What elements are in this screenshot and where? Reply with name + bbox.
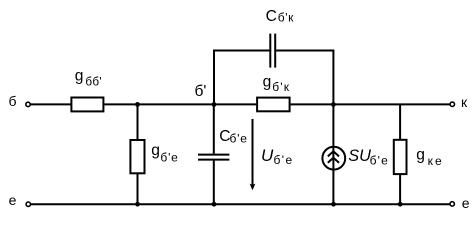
current source SU_б'е	[322, 147, 345, 170]
terminal е left	[26, 202, 30, 206]
wire б' to g_б'к	[214, 103, 256, 105]
arrow U_б'е	[252, 119, 254, 185]
wire g_б'к to node	[291, 103, 334, 105]
svg-text:ке: ке	[428, 154, 444, 168]
svg-text:g: g	[151, 142, 160, 159]
svg-text:g: g	[263, 74, 272, 91]
wire junction to б'	[138, 103, 215, 105]
wire node to terminal к	[333, 103, 450, 105]
wire б' up to C_б'к	[214, 51, 269, 105]
svg-text:е: е	[9, 192, 17, 208]
svg-text:SU: SU	[348, 147, 371, 165]
svg-text:б'к: б'к	[272, 80, 290, 94]
node junction current source top	[331, 102, 336, 107]
label g_бб'	[75, 67, 102, 88]
svg-text:g: g	[416, 147, 425, 164]
node junction C_б'е bottom	[212, 202, 217, 207]
capacitor C_б'е plates	[198, 154, 229, 156]
svg-text:бб': бб'	[85, 75, 102, 88]
svg-text:б'е: б'е	[370, 153, 389, 167]
svg-text:U: U	[261, 146, 274, 165]
wire C_б'к to node	[276, 51, 333, 105]
label C_б'е	[219, 128, 248, 145]
node junction current source bottom	[331, 202, 336, 207]
node junction g_б'е top	[135, 102, 140, 107]
svg-text:g: g	[75, 67, 84, 84]
resistor R g_б'к	[257, 98, 290, 112]
wire б' down to C_б'е	[213, 104, 215, 153]
node junction g_б'е bottom	[135, 202, 140, 207]
svg-text:б'е: б'е	[230, 132, 248, 146]
wire C_б'е to bottom rail	[213, 161, 215, 205]
wire к rail down to g_ке	[399, 104, 401, 139]
svg-text:C: C	[266, 8, 277, 25]
resistor R g_ке	[394, 140, 407, 174]
svg-text:б'е: б'е	[274, 153, 294, 167]
svg-text:б: б	[9, 93, 17, 109]
terminal к	[450, 102, 454, 106]
svg-text:б'к: б'к	[278, 11, 294, 25]
wire g_б'е to bottom rail	[137, 174, 139, 204]
label g_б'е	[151, 142, 178, 164]
wire g_бб' to junction	[104, 103, 137, 105]
svg-text:б'е: б'е	[160, 150, 178, 164]
svg-text:е: е	[462, 195, 470, 211]
label C_б'к	[266, 8, 295, 25]
capacitor C_б'к plates	[269, 34, 271, 68]
label g_ке	[416, 147, 443, 168]
wire g_ке to bottom rail	[399, 175, 401, 205]
label g_б'к	[263, 74, 291, 95]
label U_б'е	[261, 146, 294, 167]
label SU_б'е	[348, 147, 389, 168]
resistor R g_б'е	[130, 140, 144, 173]
node б'	[212, 102, 217, 107]
wire bottom rail	[31, 203, 450, 205]
node junction g_ке bottom	[398, 202, 403, 207]
wire current source branch	[332, 104, 334, 204]
resistor R g_бб'	[71, 98, 103, 112]
wire junction down to g_б'е	[137, 104, 139, 139]
svg-text:б': б'	[195, 83, 207, 100]
terminal е right	[450, 202, 454, 206]
terminal б	[26, 102, 30, 106]
wire б to g_бб'	[31, 103, 71, 105]
svg-text:к: к	[461, 94, 468, 110]
